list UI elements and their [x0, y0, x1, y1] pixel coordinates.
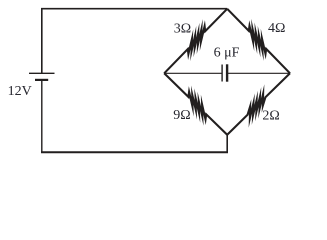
resistor R2 4 Ohm (top node to right node): [227, 9, 290, 74]
wire bottom: [41, 151, 228, 153]
resistor R4 2 Ohm (bottom node to right node): [227, 73, 290, 135]
resistor R1 3 Ohm (top node to left node): [164, 9, 227, 74]
resistor R3 9 Ohm (left node to bottom node): [164, 73, 227, 135]
capacitor C1 right plate: [226, 64, 228, 81]
battery V1 negative plate: [35, 79, 48, 81]
wire stub (bridge bottom node D to bottom wire): [226, 135, 228, 152]
svg-text:4Ω: 4Ω: [268, 21, 285, 36]
wire top (battery + to bridge top node): [42, 9, 227, 73]
svg-text:12V: 12V: [8, 84, 32, 99]
battery V1 positive plate: [29, 72, 55, 74]
svg-text:2Ω: 2Ω: [262, 109, 279, 124]
wire middle right (capacitor to right node): [227, 72, 290, 74]
svg-text:6 μF: 6 μF: [214, 46, 240, 61]
wire middle left (left node to capacitor): [164, 72, 222, 74]
wire left bottom (battery - down): [41, 80, 43, 152]
svg-text:9Ω: 9Ω: [173, 108, 190, 123]
svg-text:3Ω: 3Ω: [174, 22, 191, 37]
capacitor C1 left plate: [221, 65, 223, 82]
